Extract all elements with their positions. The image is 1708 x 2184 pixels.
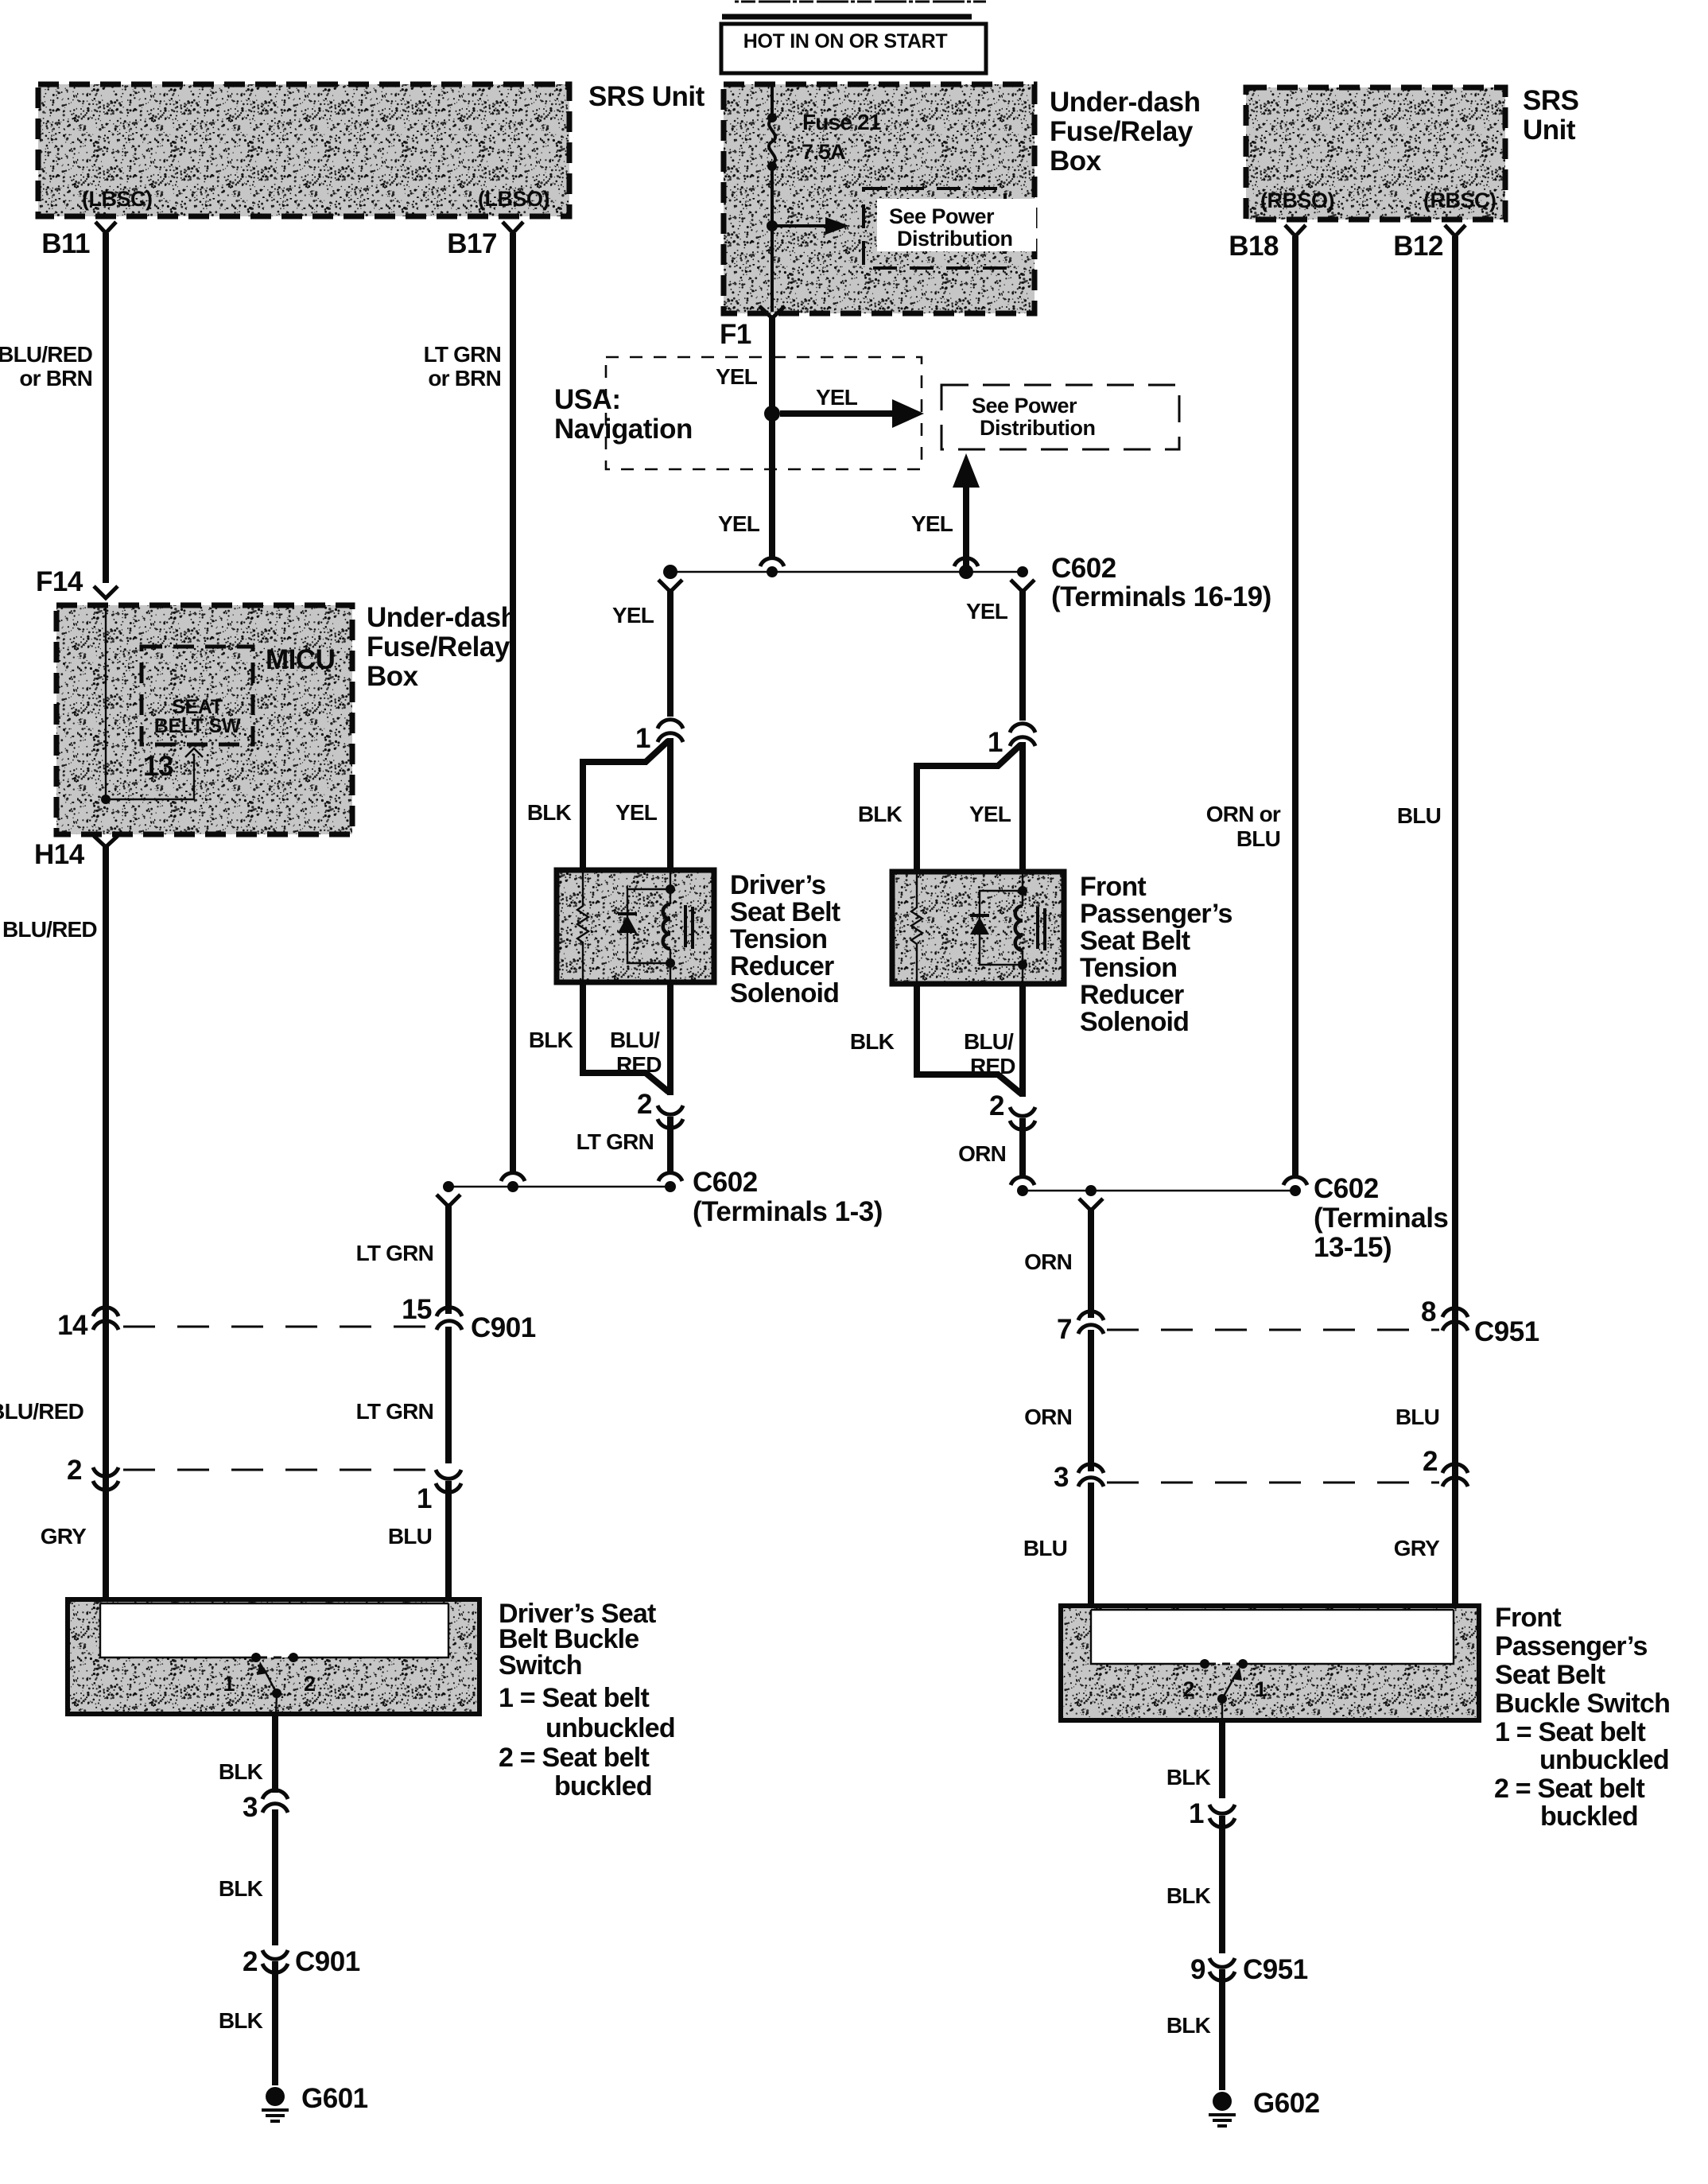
driver solenoid box [557,870,714,982]
connector 1 (W3 at buckle) [436,1470,461,1479]
svg-text:Seat Belt: Seat Belt [730,897,840,927]
svg-text:B12: B12 [1393,231,1443,262]
svg-text:Under-dash: Under-dash [367,602,517,633]
svg-text:SRS Unit: SRS Unit [588,81,705,112]
terminal fork B11 [95,222,116,233]
switch output wire (driver) [276,1696,277,1714]
wire YEL passenger solenoid (from fork to connector 1) [1019,589,1026,721]
svg-text:BLU: BLU [1396,1405,1439,1429]
connector 1 (passenger) [1209,1805,1235,1813]
connector 14 (W1 at C901) [93,1308,118,1316]
svg-text:buckled: buckled [1540,1801,1638,1832]
fork below line C602 13-15 [1079,1199,1103,1211]
wire end arc ORN/BLU at C602 13-15 line [1283,1177,1307,1185]
C901-2 dashed link line [123,1469,433,1471]
driver buckle switch box [68,1599,479,1714]
svg-text:C901: C901 [295,1946,360,1977]
svg-text:C951: C951 [1474,1316,1539,1347]
solenoid coil wire (passenger) [1022,872,1023,984]
wire BLK (passenger 2) [1219,1816,1225,1953]
svg-text:SRS: SRS [1523,85,1578,116]
svg-text:2: 2 [304,1672,316,1696]
svg-text:BLK: BLK [219,2008,263,2033]
connector 9 C951 (passenger) [1209,1958,1235,1967]
wire end arc up-arrow at C602 line [954,558,978,566]
resistor (passenger solenoid) [911,872,922,984]
fork below line (driver YEL) [658,580,682,592]
svg-text:YEL: YEL [969,802,1011,826]
svg-text:BLU/RED: BLU/RED [0,1399,84,1424]
wire BLK (passenger 3) [1219,1969,1225,2090]
connector 2 (W1 at buckle) [93,1467,118,1476]
wire F1 YEL [769,316,775,557]
wire ORN (W6 upper) [1088,1207,1094,1318]
svg-text:(RBSO): (RBSO) [1260,188,1334,212]
svg-text:BLU/RED: BLU/RED [2,917,97,942]
svg-text:BLU/: BLU/ [964,1029,1014,1054]
switch contacts (driver) [259,1657,290,1659]
wire GRY (W1 lower) [103,1479,109,1607]
svg-text:LT GRN: LT GRN [576,1129,654,1154]
svg-text:(Terminals 16-19): (Terminals 16-19) [1051,581,1271,612]
connector 1 (driver solenoid) [658,720,683,729]
C951 dashed link line [1107,1329,1439,1331]
C602 terminals 1-3 line [448,1186,670,1187]
switch arm (driver) [272,1689,281,1698]
svg-text:Fuse/Relay: Fuse/Relay [1050,116,1194,147]
wire LT GRN (driver to C602) [667,1117,673,1173]
svg-text:(RBSC): (RBSC) [1423,188,1496,212]
connector 7 (W6 at C951) [1078,1312,1104,1320]
svg-text:2 = Seat belt: 2 = Seat belt [1494,1774,1644,1804]
svg-text:Switch: Switch [499,1650,582,1681]
wire ORN (W6 mid) [1088,1330,1094,1471]
svg-text:7: 7 [1057,1314,1072,1345]
svg-text:Seat Belt: Seat Belt [1080,926,1190,956]
svg-text:Distribution: Distribution [897,227,1012,251]
svg-text:YEL: YEL [911,511,953,536]
connector 2 (passenger solenoid) [1010,1107,1035,1116]
coil (driver) [663,904,670,949]
SRS unit box (left) [38,84,569,216]
svg-text:F1: F1 [720,319,751,350]
svg-text:MICU: MICU [266,644,335,675]
svg-text:(LBSO): (LBSO) [478,187,549,211]
ground G602 [1213,2092,1232,2111]
wire BLU (W3 lower) [445,1481,452,1613]
wire LT GRN (W3 mid) [445,1327,452,1463]
wire end arc driver at C602 1-3 line [658,1173,682,1181]
svg-text:ORN: ORN [958,1141,1006,1166]
svg-text:See Power: See Power [972,394,1077,418]
svg-text:C901: C901 [471,1312,536,1343]
svg-text:YEL: YEL [816,385,858,410]
terminal fork F14 [94,586,118,598]
wire BLK (passenger, lower) [917,982,1021,1094]
svg-text:Box: Box [367,661,419,692]
svg-text:RED: RED [970,1054,1015,1078]
svg-text:C602: C602 [693,1167,758,1198]
wire BLU (W6 bottom) [1088,1483,1094,1613]
arrow to see power distribution (inside fuse box) [772,224,827,227]
resistor (driver solenoid) [577,870,588,982]
connector 15 (W3 at C901) [437,1308,462,1316]
HOT IN ON OR START box [721,24,986,73]
connector 2 (driver solenoid) [658,1106,683,1114]
svg-text:buckled: buckled [554,1771,652,1801]
svg-text:Reducer: Reducer [1080,980,1184,1010]
wire YEL (driver, into solenoid) [667,738,673,872]
svg-text:13-15): 13-15) [1314,1232,1392,1263]
svg-text:Distribution: Distribution [980,416,1095,440]
svg-text:Under-dash: Under-dash [1050,87,1200,118]
svg-text:C951: C951 [1243,1954,1308,1985]
connector 1 (passenger solenoid) [1010,724,1035,733]
svg-text:15: 15 [402,1294,432,1325]
svg-text:7.5A: 7.5A [802,140,845,164]
svg-text:BLK: BLK [858,802,903,826]
svg-text:G601: G601 [301,2083,368,2114]
C602 terminals 16-19 line [670,571,1023,573]
svg-text:or BRN: or BRN [428,366,501,391]
svg-text:BLK: BLK [219,1876,263,1901]
arrow YEL to see power distribution 2 [780,410,895,417]
svg-text:LT GRN: LT GRN [424,342,501,367]
wire YEL (passenger, into solenoid) [1019,742,1026,873]
svg-text:B11: B11 [41,228,90,259]
svg-text:9: 9 [1190,1954,1205,1985]
svg-text:ORN: ORN [1024,1405,1072,1429]
svg-text:Fuse/Relay: Fuse/Relay [367,631,510,663]
svg-text:BLU/RED: BLU/RED [0,342,93,367]
svg-text:BLK: BLK [850,1029,895,1054]
svg-text:B18: B18 [1229,231,1279,262]
fuse 21 element [769,119,775,164]
C951-2 dashed link line [1107,1482,1439,1484]
switch arm (passenger) [1217,1694,1227,1704]
fuse 21 internal wire top [771,84,774,116]
solenoid coil wire (driver) [670,870,671,982]
svg-text:GRY: GRY [1394,1536,1440,1560]
svg-text:1: 1 [988,727,1003,758]
USA Navigation dashed box [606,357,922,469]
svg-text:Fuse 21: Fuse 21 [802,110,881,134]
svg-text:ORN: ORN [1024,1249,1072,1274]
svg-text:B17: B17 [447,228,497,259]
connector 3 (W6 lower) [1078,1464,1104,1473]
switch output wire (passenger) [1221,1701,1223,1720]
svg-text:BLK: BLK [1166,1765,1211,1790]
svg-text:3: 3 [1054,1462,1069,1493]
top cut-off rule [735,1,986,3]
wire BLU B12 (W8) [1452,236,1458,1607]
switch contacts (passenger) [1208,1663,1240,1665]
SRS unit box (right) [1246,87,1505,220]
svg-text:USA:: USA: [554,384,621,415]
terminal fork B18 [1285,225,1306,236]
svg-text:BLU: BLU [1397,803,1441,828]
wire LT GRN (W3 upper) [445,1203,452,1314]
svg-text:Seat Belt: Seat Belt [1495,1660,1605,1690]
connector 2 C901 (driver) [262,1950,288,1959]
svg-text:C602: C602 [1314,1173,1379,1204]
wire ORN or BLU (W7 from B18) [1292,236,1298,1179]
junction dot on F1 wire [764,406,780,422]
wire BLU/RED (W1 mid) [103,1327,109,1461]
svg-text:1: 1 [417,1483,432,1514]
wire GRY (W8 bottom) [1452,1483,1458,1613]
wire BLK (passenger switch out) [1219,1720,1225,1798]
svg-text:BLK: BLK [527,800,572,825]
svg-text:YEL: YEL [615,800,658,825]
svg-text:1 = Seat belt: 1 = Seat belt [499,1683,649,1713]
svg-text:Solenoid: Solenoid [1080,1007,1189,1037]
svg-text:1: 1 [635,723,650,754]
svg-text:See Power: See Power [889,204,995,228]
svg-text:G602: G602 [1253,2088,1320,2119]
terminal fork 13 (arrow into seat belt sw) [185,748,203,757]
svg-text:2: 2 [243,1946,258,1977]
svg-text:2: 2 [67,1455,82,1486]
svg-text:1: 1 [1255,1677,1267,1701]
svg-text:unbuckled: unbuckled [545,1713,675,1743]
svg-text:F14: F14 [36,566,83,597]
svg-text:YEL: YEL [966,599,1008,624]
driver buckle inner box [100,1603,448,1657]
svg-text:LT GRN: LT GRN [356,1241,433,1265]
passenger solenoid box [892,872,1064,984]
diode (passenger) [970,917,989,935]
svg-text:GRY: GRY [41,1524,87,1549]
coil (passenger) [1015,906,1023,950]
wire ORN (passenger to C602) [1019,1118,1026,1177]
under-dash fuse/relay box (MICU) [56,605,352,834]
svg-text:ORN or: ORN or [1206,802,1281,826]
diode loop (passenger) [980,891,1023,965]
core bars (driver) [685,905,693,949]
svg-text:Passenger’s: Passenger’s [1495,1631,1648,1661]
arrow YEL up to see power distribution 2 [963,485,969,566]
svg-text:Driver’s: Driver’s [730,870,825,900]
ground G601 [266,2087,285,2106]
wire B11 BLU/RED (W1 upper) [103,233,109,583]
wire YEL driver solenoid (from fork to connector 1) [667,589,673,717]
MICU internal wire from F14 [106,605,194,799]
connector 3 (driver) [262,1790,288,1799]
svg-text:Front: Front [1495,1603,1561,1633]
svg-text:Solenoid: Solenoid [730,978,839,1008]
svg-text:Passenger’s: Passenger’s [1080,899,1232,929]
core bars (passenger) [1038,907,1045,950]
svg-text:BLU: BLU [1236,826,1280,851]
svg-text:1: 1 [223,1672,235,1696]
wire BLK (driver, lower) [583,981,669,1092]
terminal fork B17 [503,222,523,233]
wire BLK (driver 3) [272,1961,278,2085]
svg-text:(Terminals: (Terminals [1314,1203,1448,1234]
svg-text:LT GRN: LT GRN [356,1399,433,1424]
wire BLK branch (driver, upper) [583,740,669,872]
svg-text:Tension: Tension [1080,953,1177,983]
diode (driver) [618,915,637,933]
svg-text:2: 2 [1182,1677,1194,1701]
svg-text:C602: C602 [1051,553,1116,584]
connector 2 (W8 lower) [1442,1464,1468,1473]
svg-text:Unit: Unit [1523,115,1576,146]
svg-text:3: 3 [243,1792,258,1823]
wire H14 BLU/RED (W1 lower) [103,845,109,1600]
wire BLK (driver switch out) [272,1714,278,1793]
svg-text:1: 1 [1189,1798,1204,1829]
see power distribution box 2 (dashed) [941,385,1179,449]
see power distribution label (inside fuse box) [877,199,1036,251]
fuse internal wire bottom [771,226,774,312]
svg-text:Box: Box [1050,146,1102,177]
svg-text:BLK: BLK [219,1759,263,1784]
connector 8 (W8 at C951) [1442,1308,1468,1317]
under-dash fuse/relay box (top) [724,84,1035,313]
svg-text:BLK: BLK [529,1028,573,1052]
terminal fork F1 [759,306,785,318]
svg-text:BLU: BLU [388,1524,432,1549]
svg-text:Navigation: Navigation [554,414,693,445]
diode loop (driver) [627,889,670,963]
svg-text:(LBSC): (LBSC) [82,187,152,211]
svg-text:2: 2 [637,1089,652,1120]
svg-text:YEL: YEL [718,511,760,536]
svg-text:Buckle Switch: Buckle Switch [1495,1689,1670,1719]
svg-text:HOT IN ON OR START: HOT IN ON OR START [743,30,948,52]
wire B17 LT GRN (W2) [510,233,516,1175]
dashed box behind see power (inside fuse box) [864,188,1005,268]
fork below line C602 1-3 [437,1195,460,1207]
svg-text:YEL: YEL [612,603,654,628]
svg-text:BLU: BLU [1023,1536,1067,1560]
wire end arc B17 at C602 1-3 line [501,1173,525,1181]
terminal fork B12 [1445,225,1465,236]
svg-text:Reducer: Reducer [730,951,834,981]
wire BLK (driver 2) [272,1809,278,1945]
fuse internal wire to junction [771,166,774,226]
fork below line (passenger YEL) [1011,580,1035,592]
svg-text:(Terminals 1-3): (Terminals 1-3) [693,1196,883,1227]
passenger buckle switch box [1061,1606,1479,1720]
svg-text:H14: H14 [34,839,85,870]
SEAT BELT SW dashed box [142,647,253,744]
svg-text:BELT SW: BELT SW [154,715,241,737]
wire BLU/RED (passenger below solenoid) [1019,982,1026,1097]
svg-text:2 = Seat belt: 2 = Seat belt [499,1743,649,1773]
passenger buckle inner box [1091,1610,1454,1664]
svg-text:YEL: YEL [716,364,758,389]
svg-text:2: 2 [1423,1446,1438,1477]
svg-text:BLK: BLK [1166,2013,1211,2038]
C901 dashed link line [123,1326,433,1328]
terminal fork H14 [94,836,118,847]
wire end arc F1 at C602 line [760,558,784,566]
wire BLU/RED (driver below solenoid) [667,981,673,1095]
svg-text:Tension: Tension [730,924,827,954]
svg-text:BLK: BLK [1166,1883,1211,1908]
svg-text:2: 2 [989,1090,1004,1121]
svg-text:unbuckled: unbuckled [1539,1745,1669,1775]
svg-text:BLU/: BLU/ [610,1028,660,1052]
svg-text:1 = Seat belt: 1 = Seat belt [1495,1717,1645,1747]
svg-text:RED: RED [616,1052,662,1077]
wire BLK branch (passenger, upper) [917,744,1021,873]
svg-text:Front: Front [1080,872,1146,902]
wire end arc passenger at C602 13-15 line [1011,1177,1035,1185]
svg-text:8: 8 [1421,1296,1436,1327]
svg-text:13: 13 [143,751,173,782]
C602 terminals 13-15 line [1023,1190,1295,1191]
svg-text:or BRN: or BRN [19,366,92,391]
svg-text:14: 14 [57,1310,88,1341]
